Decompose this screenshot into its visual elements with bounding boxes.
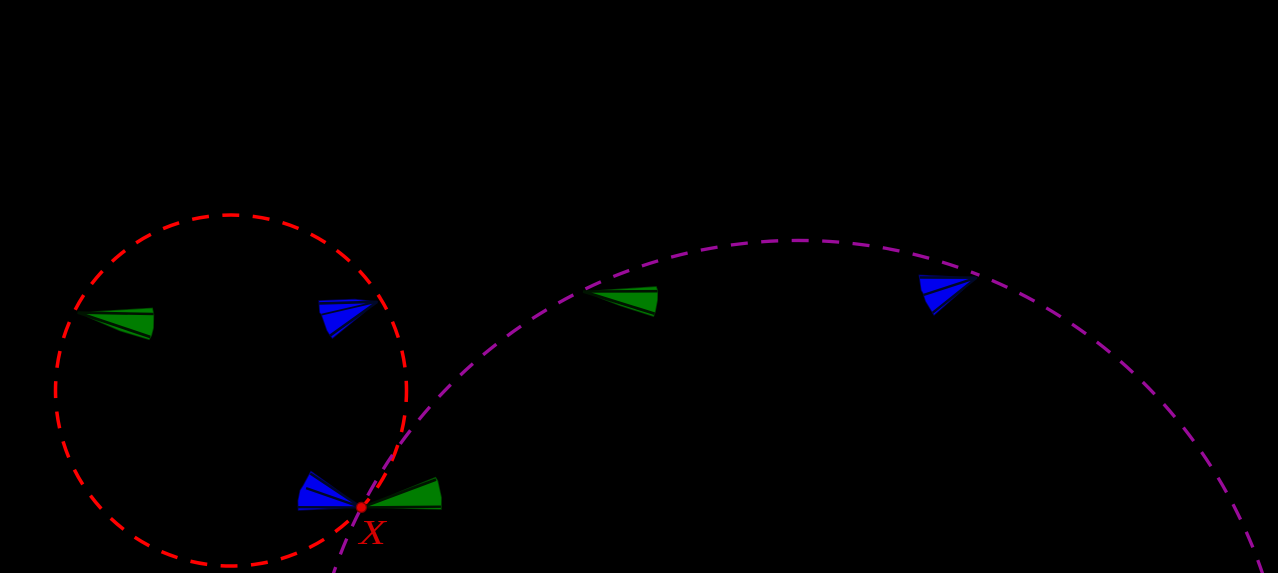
blue cone on purple arc (right)	[919, 275, 977, 315]
purple dashed circle arc, upper branch from X over the top to right cone apex	[361, 240, 979, 507]
green cone at point X (pointing up-right)	[361, 477, 441, 509]
svg-text:X: X	[357, 513, 388, 552]
purple dashed circle arc, continuation beyond right cone apex to bottom right	[979, 275, 1271, 573]
blue cone at upper-right point of red circle	[319, 299, 378, 338]
green cone on purple arc (middle)	[583, 287, 658, 317]
green cone at left point of red circle	[78, 308, 154, 340]
purple dashed circle arc, lower branch from X to bottom left	[329, 507, 362, 573]
point X marker (red dot)	[356, 502, 366, 512]
blue cone at point X (pointing up-left)	[298, 471, 362, 510]
red dashed circle (circle of curvature)	[56, 215, 407, 566]
